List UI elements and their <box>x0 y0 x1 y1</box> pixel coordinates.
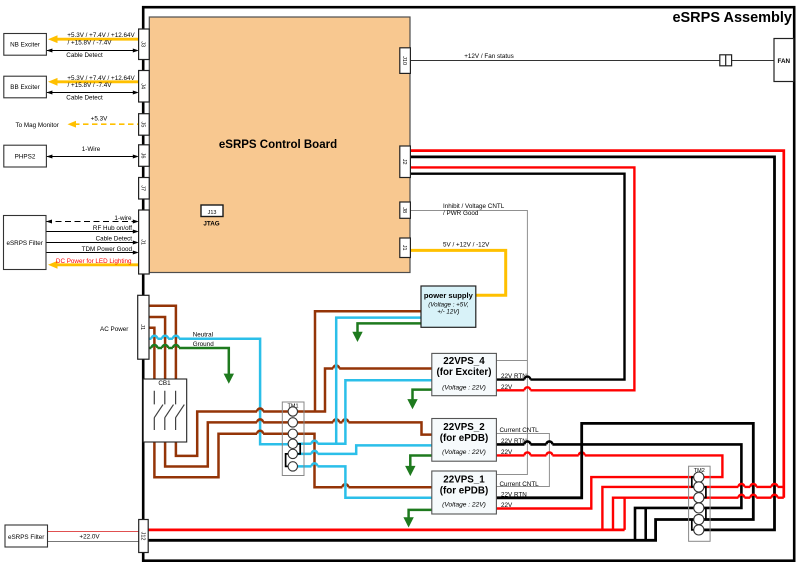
wire brown CB1 breaker1 to TM1-1 and up to power supply / 22VPS_4 <box>176 311 432 456</box>
wire gray tap to 22VPS_4 <box>496 360 527 362</box>
TM1 terminal block <box>282 402 304 476</box>
svg-text:TDM Power Good: TDM Power Good <box>82 246 133 253</box>
svg-text:22V: 22V <box>501 449 513 456</box>
svg-text:J4: J4 <box>140 83 146 89</box>
svg-text:22VPS_1: 22VPS_1 <box>443 475 485 486</box>
wire cyan Neutral J1 to TM1-4 <box>149 336 288 445</box>
TM1 jumper c5-c6 <box>286 454 290 467</box>
svg-text:eSRPS Control Board: eSRPS Control Board <box>219 139 337 151</box>
wire black TM2-4 left drops to J12 line <box>635 508 694 540</box>
wire dashed yellow +5.3V to Mag Monitor (J5) <box>68 121 139 128</box>
svg-text:J10: J10 <box>401 56 407 65</box>
breaker pole 2 <box>165 391 174 430</box>
svg-text:Cable Detect: Cable Detect <box>66 52 103 59</box>
svg-text:Current CNTL: Current CNTL <box>500 427 540 434</box>
wire red TM2-2 to +22V line <box>602 487 693 530</box>
wire red +22.0V from J12 <box>148 529 625 532</box>
ground arrow 22VPS_4 <box>407 399 417 409</box>
svg-text:J1: J1 <box>401 245 407 251</box>
svg-text:(Voltage : +5V,: (Voltage : +5V, <box>428 301 468 308</box>
svg-text:J1: J1 <box>140 239 146 245</box>
wire yellow 5V/+12V/-12V from J1R to power supply <box>410 250 505 295</box>
TM1 terminal 6 <box>288 462 297 471</box>
connector J4 <box>139 71 150 103</box>
wire green 22VPS_4 ground <box>413 390 432 400</box>
wire red 22VPS_1 22V to TM2-1 <box>496 477 693 508</box>
wire red J2 to TM2 (22V) <box>410 151 783 498</box>
CB1 circuit breaker box <box>143 379 187 442</box>
connector J1 (right, power) <box>400 238 411 258</box>
svg-text:(for ePDB): (for ePDB) <box>440 486 488 497</box>
TM2 jumper c4-c5 <box>702 508 706 520</box>
eSRPS Filter box (upper) <box>4 216 47 270</box>
wire yellow +5.3V etc to NB Exciter (J3) <box>48 35 139 43</box>
svg-text:J7: J7 <box>140 185 146 191</box>
svg-text:5V / +12V / -12V: 5V / +12V / -12V <box>443 241 490 248</box>
wire thin gray eSRPS filter to J12 <box>48 541 139 543</box>
connector J1 (AC power) <box>138 295 149 359</box>
svg-text:+12V / Fan status: +12V / Fan status <box>464 53 514 60</box>
wire Cable Detect NB to J3 <box>46 49 138 53</box>
svg-text:eSRPS Filter: eSRPS Filter <box>8 534 44 541</box>
wire brown CB1 breaker2 to TM1-2 and to 22VPS_2 <box>165 419 432 466</box>
connector J3 <box>139 29 150 60</box>
wire yellow DC Power for LED Lighting <box>48 261 139 269</box>
connector J8 <box>400 202 411 218</box>
svg-text:J1: J1 <box>139 324 145 330</box>
svg-text:Ground: Ground <box>193 341 215 348</box>
svg-text:/ +15.8V / -7.4V: / +15.8V / -7.4V <box>68 82 113 89</box>
TM2 jumper c2-c3 <box>702 487 706 498</box>
svg-text:FAN: FAN <box>778 58 791 65</box>
breaker pole 3 <box>176 391 185 430</box>
connector J2 <box>400 146 411 178</box>
svg-text:22V RTN: 22V RTN <box>501 373 527 380</box>
wire +12V fan status <box>410 60 774 62</box>
svg-text:+5.3V / +7.4V / +12.64V: +5.3V / +7.4V / +12.64V <box>67 32 135 39</box>
svg-text:NB Exciter: NB Exciter <box>10 42 40 49</box>
wire TDM Power Good <box>46 251 139 255</box>
wire red J2 to 22VPS_4 22V <box>410 167 634 390</box>
TM2 jumper c1-c2 <box>692 477 696 487</box>
wire Cable Detect BB to J4 <box>46 91 138 95</box>
TM2 terminal 3 <box>694 493 704 503</box>
svg-text:Neutral: Neutral <box>193 332 213 339</box>
svg-text:(Voltage : 22V): (Voltage : 22V) <box>442 385 486 392</box>
TM2 terminal 5 <box>694 514 704 524</box>
wire brown CB1 breaker3 to TM1-3 and to 22VPS_1 <box>154 431 431 487</box>
TM1 terminal 5 <box>288 449 297 458</box>
TM1 terminal 4 <box>288 439 297 448</box>
svg-text:22V RTN: 22V RTN <box>501 491 527 498</box>
connector J6 <box>139 145 150 167</box>
TM1 terminal 3 <box>288 429 297 438</box>
ground arrow 22VPS_1 <box>403 517 413 527</box>
svg-text:BB Exciter: BB Exciter <box>10 84 39 91</box>
wire 1-Wire PHPS2 to J6 <box>46 155 138 159</box>
wire red TM2-2 right to J2 red <box>704 484 784 487</box>
breaker pole 1 <box>154 391 163 430</box>
svg-text:PHPS2: PHPS2 <box>15 154 36 161</box>
wire red TM2-3 left to +22V line <box>613 498 694 530</box>
PHPS2 box <box>4 145 47 167</box>
svg-text:eSRPS Assembly: eSRPS Assembly <box>672 10 792 26</box>
svg-text:DC Power for LED Lighting: DC Power for LED Lighting <box>56 258 132 265</box>
svg-text:+5.3V: +5.3V <box>91 115 108 122</box>
svg-text:(for ePDB): (for ePDB) <box>440 433 488 444</box>
svg-text:eSRPS Filter: eSRPS Filter <box>6 240 42 247</box>
connector J7 <box>139 178 150 200</box>
wire yellow +5.3V etc to BB Exciter (J4) <box>48 78 139 86</box>
svg-text:+5.3V / +7.4V / +12.64V: +5.3V / +7.4V / +12.64V <box>67 75 135 82</box>
power supply box <box>421 286 476 327</box>
svg-text:Cable Detect: Cable Detect <box>96 236 133 243</box>
svg-text:1-Wire: 1-Wire <box>82 146 101 153</box>
svg-text:power supply: power supply <box>424 291 474 300</box>
wire black J2 to TM2-6 <box>410 157 774 530</box>
TM2 terminal 6 <box>694 525 704 535</box>
wire green power supply ground <box>358 323 422 333</box>
svg-text:22V: 22V <box>501 384 513 391</box>
svg-text:J2: J2 <box>401 159 407 165</box>
svg-text:+22.0V: +22.0V <box>79 534 100 541</box>
svg-text:/ +15.8V / -7.4V: / +15.8V / -7.4V <box>68 39 113 46</box>
22VPS_2 box <box>432 419 497 462</box>
wire gray Current CNTL 22VPS_2 chain to 22VPS_1 <box>496 434 549 487</box>
svg-text:JTAG: JTAG <box>203 221 219 228</box>
svg-text:(Voltage : 22V): (Voltage : 22V) <box>442 449 486 456</box>
NB Exciter box <box>4 34 47 56</box>
22VPS_1 box <box>432 471 497 514</box>
svg-text:To Mag Monitor: To Mag Monitor <box>16 122 59 129</box>
wire green Ground J1 to ground arrow <box>149 345 229 374</box>
connector J10 <box>400 48 411 74</box>
wire green 22VPS_1 ground <box>409 510 432 518</box>
TM2 terminal 4 <box>694 503 704 513</box>
ground arrow at AC input <box>224 374 234 384</box>
eSRPS Filter box (lower) <box>5 525 48 547</box>
svg-text:/ PWR Good: / PWR Good <box>443 210 479 217</box>
wire RF Hub on/off <box>46 230 139 234</box>
TM1 jumper c4-c5 <box>296 444 300 454</box>
svg-text:J13: J13 <box>208 210 217 216</box>
svg-text:22VPS_4: 22VPS_4 <box>443 356 485 367</box>
wire brown AC line2 J1 to CB1 <box>149 317 165 379</box>
svg-text:(for Exciter): (for Exciter) <box>437 367 492 378</box>
svg-text:+/- 12V): +/- 12V) <box>437 309 459 316</box>
wire green 22VPS_2 ground <box>410 456 432 467</box>
wire gray Inhibit/Voltage CNTL/PWR Good bus from J8 <box>410 211 527 475</box>
svg-text:J12: J12 <box>139 532 145 541</box>
wire brown AC line1 J1 to CB1 <box>149 306 176 379</box>
wire brown AC line3 J1 to CB1 <box>149 328 154 379</box>
svg-text:Cable Detect: Cable Detect <box>66 95 103 102</box>
assembly frame <box>143 7 794 561</box>
wire 1-wire filter to J1 (dashed) <box>46 220 139 224</box>
22VPS_4 box <box>432 353 497 395</box>
svg-text:Current CNTL: Current CNTL <box>500 481 540 488</box>
connector J5 <box>139 114 150 136</box>
svg-text:22V RTN: 22V RTN <box>501 438 527 445</box>
wire Cable Detect filter <box>46 241 139 245</box>
connector J12 <box>139 520 149 553</box>
TM2 terminal 1 <box>694 472 704 482</box>
svg-text:22VPS_2: 22VPS_2 <box>443 422 485 433</box>
ground arrow 22VPS_2 <box>405 466 415 476</box>
wire cyan TM1-6 to 22VPS_1 <box>298 463 432 497</box>
BB Exciter box <box>4 76 47 98</box>
wire red 22VPS_2 22V to TM2-1 <box>496 452 722 477</box>
TM1 terminal 1 <box>288 407 297 416</box>
TM2 terminal 2 <box>694 482 704 492</box>
wire black 22VPS_2 22V RTN to TM2-4 <box>496 441 741 508</box>
svg-text:AC Power: AC Power <box>100 326 128 333</box>
connector J1 (filter) <box>139 210 150 274</box>
wire red TM2-3 right to J2 red <box>704 495 784 498</box>
svg-text:J6: J6 <box>140 153 146 159</box>
svg-text:(Voltage : 22V): (Voltage : 22V) <box>442 502 486 509</box>
eSRPS Control Board <box>149 17 410 273</box>
wire thin red eSRPS filter to J12 <box>48 531 139 533</box>
svg-text:J3: J3 <box>140 41 146 47</box>
TM1 terminal 2 <box>288 418 297 427</box>
connector J13 <box>201 205 223 217</box>
svg-text:RF Hub on/off: RF Hub on/off <box>93 225 132 232</box>
svg-text:1-wire: 1-wire <box>114 215 132 222</box>
inline connector symbol on fan wire <box>720 55 732 66</box>
wire black J12 to TM2-5 <box>148 520 694 541</box>
wire black 22VPS_1 22V RTN to TM2-5 <box>496 423 753 519</box>
ground arrow power supply <box>352 332 362 342</box>
TM2 terminal block <box>689 466 711 541</box>
wire cyan TM1-5 to 22VPS_2 <box>298 445 432 454</box>
svg-text:J5: J5 <box>140 121 146 127</box>
wire black J2 to 22VPS_4 22V RTN <box>410 174 624 380</box>
svg-text:22V: 22V <box>501 502 513 509</box>
wire cyan TM1-4 to power supply and 22VPS_4 <box>298 318 432 444</box>
TM2 jumper c5-c6 <box>692 520 696 530</box>
svg-text:CB1: CB1 <box>158 380 171 387</box>
svg-text:J8: J8 <box>401 207 407 213</box>
FAN box <box>774 39 794 82</box>
